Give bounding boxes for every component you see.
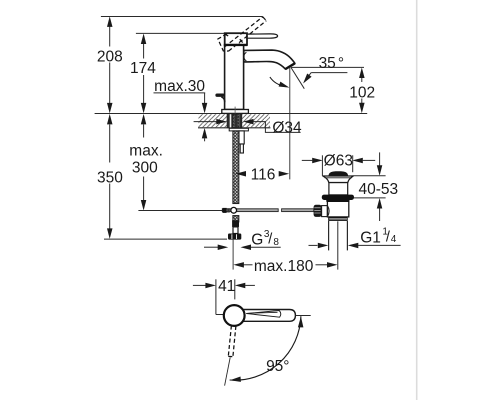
pop-up plug cap [329,171,349,176]
countertop deck top line [95,113,368,115]
spout root fillet [244,52,246,61]
max.30 leader underline [154,92,206,94]
drain centerline [337,221,339,269]
rotated handle phantom (dashed) [228,326,236,357]
dimension 102 line [361,76,363,82]
hose neck [233,227,238,234]
threaded shank between deck lines [227,114,242,128]
svg-text:G1: G1 [360,230,381,247]
svg-text:Ø34: Ø34 [272,120,302,137]
dimension 41 [193,284,206,286]
deck hatch right of shank [242,114,270,127]
svg-text:116: 116 [251,167,276,184]
35 deg horizontal reference ray / 102 top extension [291,66,364,68]
spout [244,50,295,69]
drain tailpipe edges [328,221,330,251]
spout tip vertical projection line [289,68,291,179]
35 deg stream line [291,67,304,88]
countertop deck bottom line [198,127,270,129]
svg-text:8: 8 [273,237,279,248]
drain rubber seal [322,195,354,200]
plan view lever handle [242,310,295,322]
extension line top of 174 [136,32,225,34]
drain body [327,200,348,217]
dimension Ø34 leader [194,121,217,123]
flexible supply hose (braided) upper run [233,131,239,204]
35 deg leader line [311,72,347,74]
svg-text:max.: max. [129,143,163,160]
svg-text:350: 350 [97,169,123,186]
dimension max.300 line [143,125,145,138]
plan reference line at handle tip [296,315,311,317]
pop-up pull knob at faucet [215,94,224,97]
extension line bottom of 350 [104,238,227,240]
drain side port [322,206,328,217]
light gray separator line [416,0,418,400]
svg-text:95°: 95° [266,358,289,375]
cartridge housing [225,33,247,45]
dimension G3/8 [204,246,218,248]
flow direction curved arrow [270,77,286,87]
drain tail flange [328,217,348,221]
drain flange [323,176,354,183]
drain adjuster knob [314,205,322,217]
plan view lever top detail [247,311,281,318]
lever handle (horizontal) [247,34,277,38]
supply hose through shank [233,114,239,127]
svg-text:40-53: 40-53 [358,181,398,198]
dimension 208 line [109,26,111,47]
dimension max.180 [244,264,253,266]
drain neck [329,183,348,195]
plan view faucet body circle [224,305,245,326]
dimension Ø63 [302,159,313,161]
horizontal pop-up rod segment 1 [222,209,278,212]
hose centerline extension [232,240,234,270]
hose end nut G3/8 [228,234,241,240]
extension line top of 208 [101,16,263,18]
faucet body column [225,45,244,110]
dimension max.30 line [204,93,206,104]
svg-text:102: 102 [349,84,375,101]
40-53 extension lines [353,175,386,177]
hose crimp sleeve [232,220,239,227]
svg-text:35°: 35° [319,55,344,72]
horizontal pop-up rod segment 2 [282,209,314,212]
svg-text:max.180: max.180 [254,258,314,275]
svg-text:4: 4 [391,234,397,245]
faucet centerline through base [234,107,236,119]
dimension 116 [236,171,247,177]
extension line bottom of max.300 / pop-up rod axis [138,210,222,212]
Ø63 extension lines [321,155,323,176]
raised lever phantom (dashed) [218,17,266,51]
dimension 350 line [109,125,111,163]
95 deg arc [230,316,301,380]
dimension G1 1/4 [309,244,318,246]
dimension 40-53 [379,152,381,166]
mounting stud and nut [239,131,244,144]
svg-text:208: 208 [97,48,123,65]
washer under deck [229,128,248,131]
deck hatch left of shank [199,114,228,127]
rod clamp [223,208,227,213]
41 extension lines [215,279,217,314]
handle axis extension line [225,357,231,385]
svg-text:174: 174 [130,60,156,77]
svg-text:Ø63: Ø63 [324,152,353,169]
svg-text:G: G [251,232,263,249]
faucet base flange [222,110,249,114]
supply hose lower run [233,216,239,222]
dimension 174 line [143,43,145,59]
rod ball joint [231,207,237,213]
spout outlet face [285,63,295,69]
svg-text:41: 41 [218,278,235,295]
svg-text:300: 300 [132,160,158,177]
